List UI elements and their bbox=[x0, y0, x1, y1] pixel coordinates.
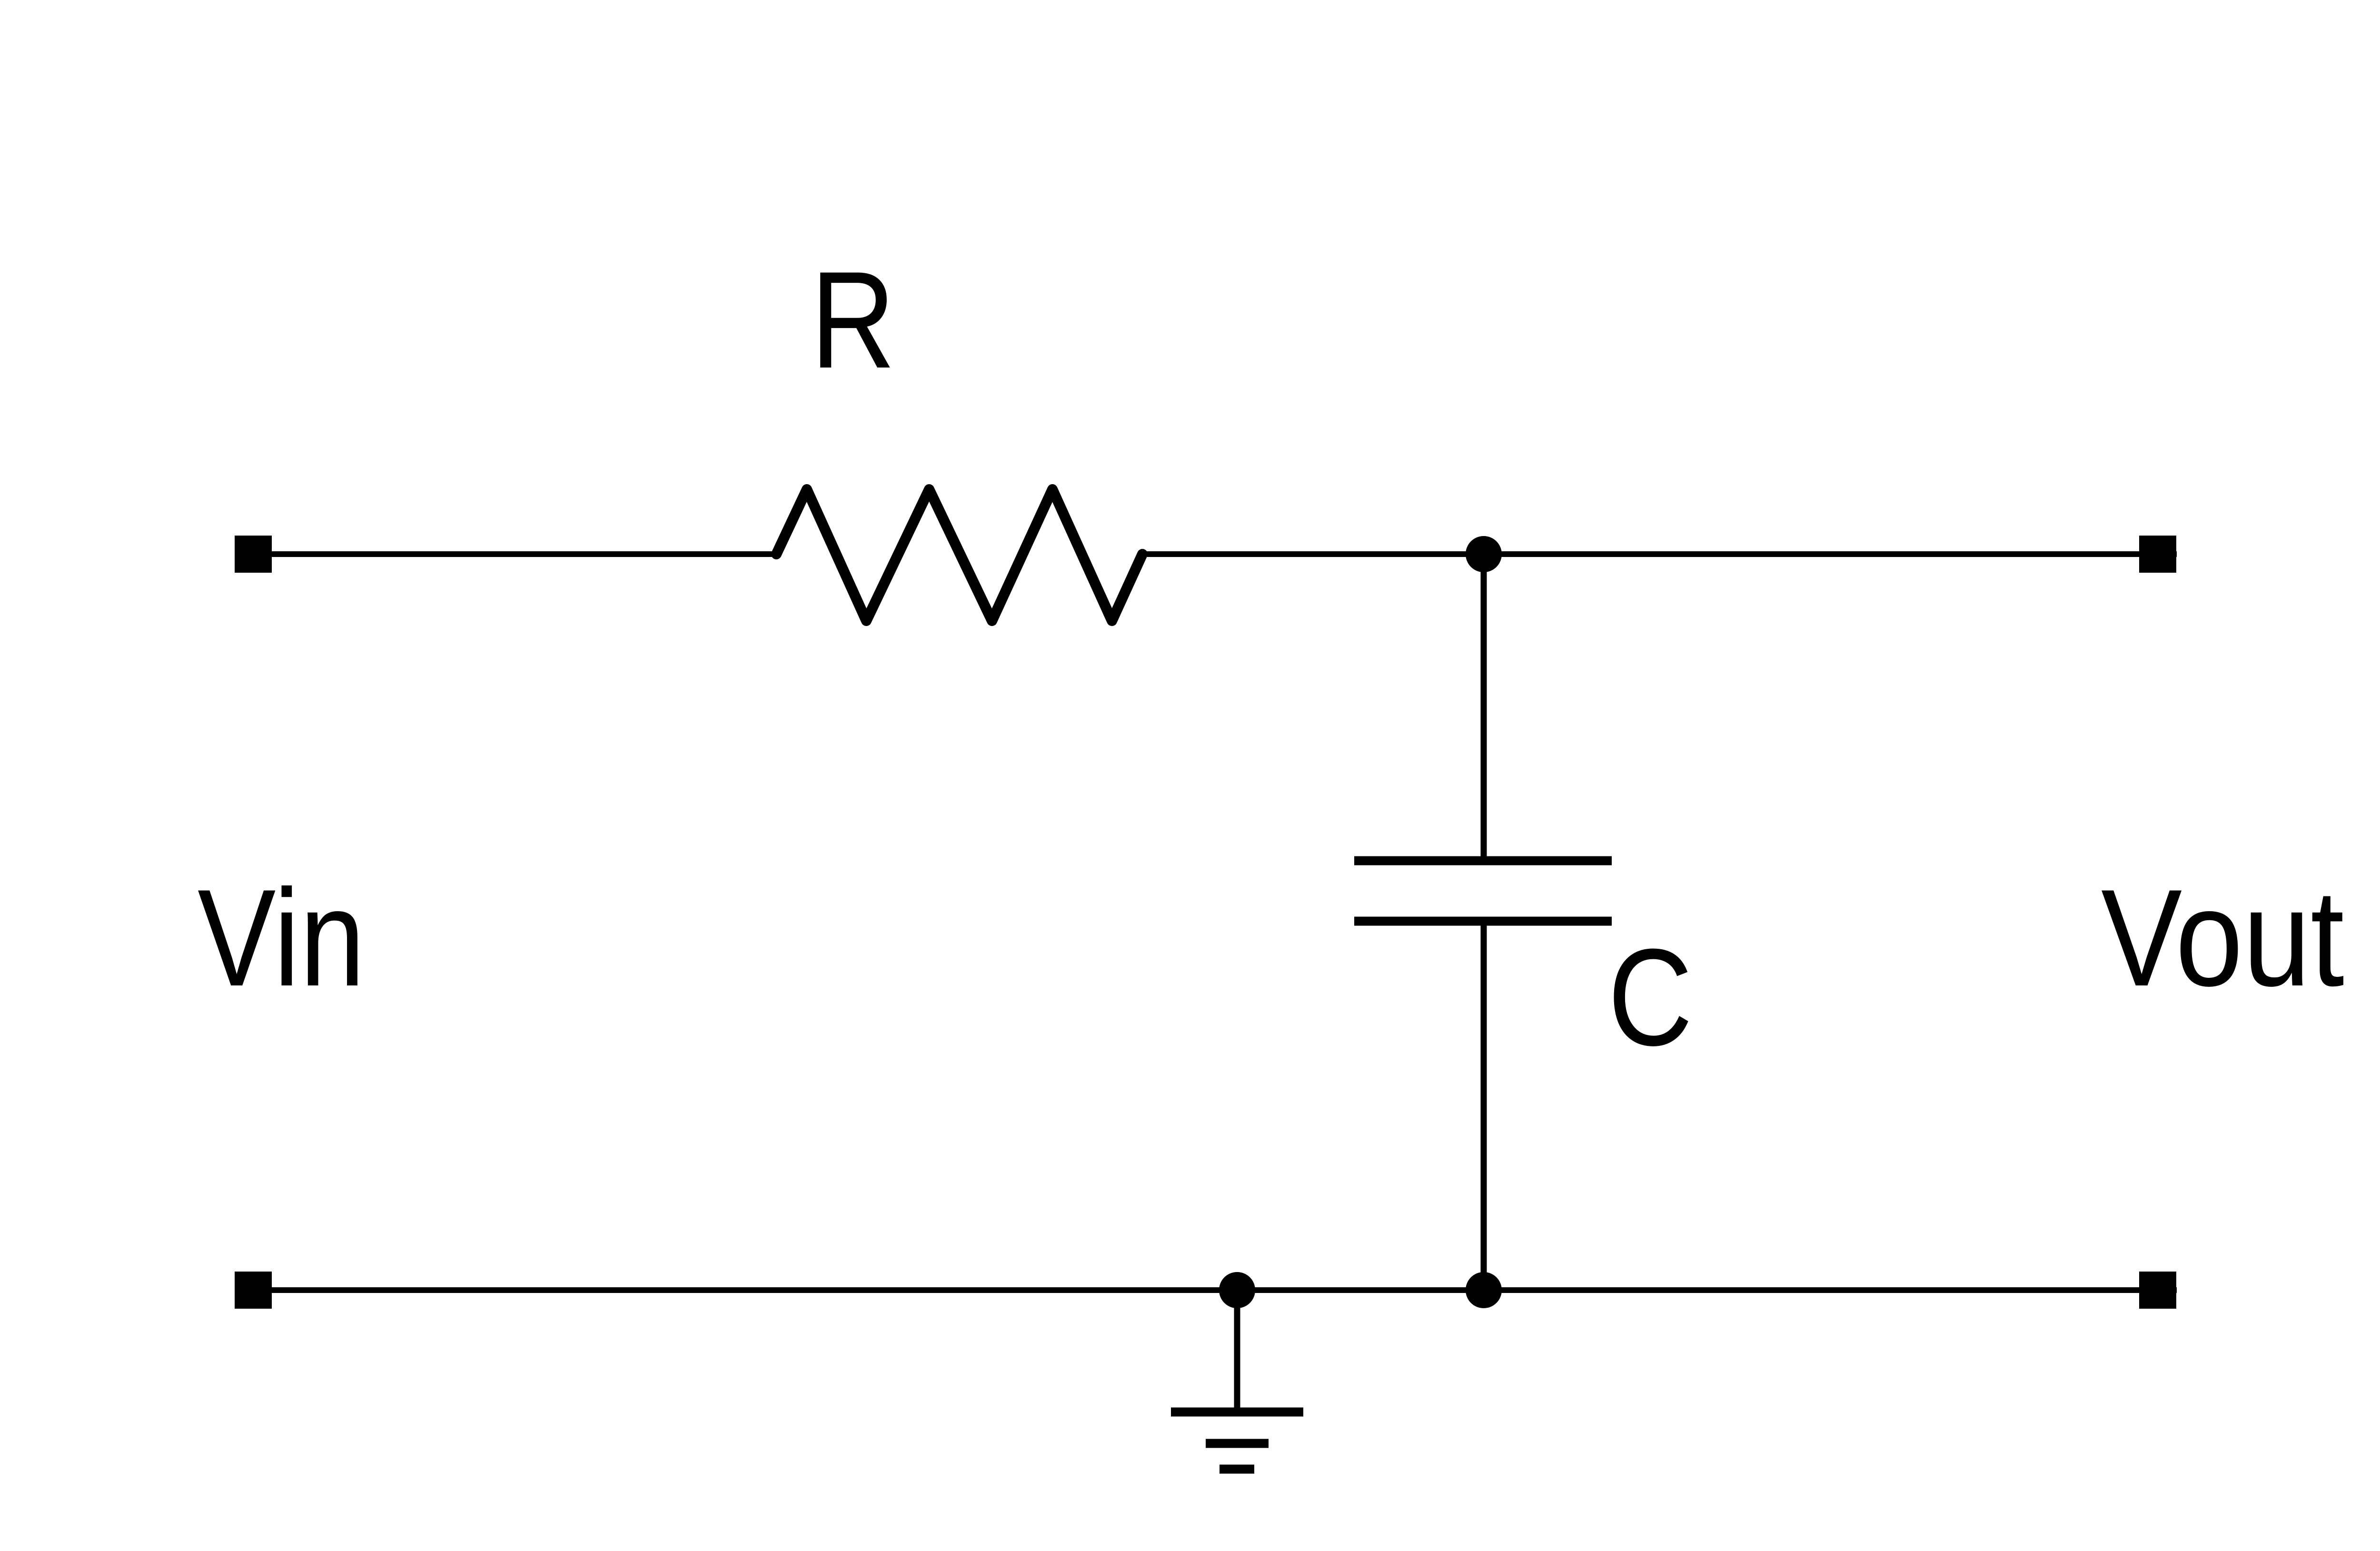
ground symbol bottom bar bbox=[1220, 1465, 1254, 1474]
node junction dot at top of capacitor branch bbox=[1466, 536, 1502, 572]
terminal square Vin + (top left) bbox=[235, 536, 272, 573]
ground symbol middle bar bbox=[1206, 1439, 1269, 1448]
svg-text:R: R bbox=[811, 243, 895, 397]
terminal square Vout - (bottom right) bbox=[2139, 1272, 2176, 1309]
node junction dot capacitor to bottom rail bbox=[1466, 1272, 1502, 1308]
svg-text:Vout: Vout bbox=[2101, 861, 2345, 1015]
wire top rail right segment (resistor to Vout terminal) bbox=[1140, 551, 2177, 557]
wire bottom rail bbox=[235, 1287, 2177, 1293]
svg-text:Vin: Vin bbox=[198, 861, 365, 1015]
wire capacitor upper lead bbox=[1481, 554, 1487, 861]
wire ground stub bbox=[1234, 1290, 1240, 1412]
node junction dot ground tap on bottom rail bbox=[1219, 1272, 1255, 1308]
svg-text:C: C bbox=[1608, 920, 1693, 1074]
wire top rail left segment (Vin to resistor) bbox=[235, 551, 779, 557]
resistor R zigzag body bbox=[776, 489, 1142, 621]
terminal square Vin - (bottom left) bbox=[235, 1272, 272, 1309]
wire capacitor lower lead bbox=[1481, 921, 1487, 1290]
capacitor C bottom plate bbox=[1354, 917, 1612, 926]
terminal square Vout + (top right) bbox=[2139, 536, 2176, 573]
capacitor C top plate bbox=[1354, 856, 1612, 865]
ground symbol top bar bbox=[1171, 1408, 1303, 1417]
